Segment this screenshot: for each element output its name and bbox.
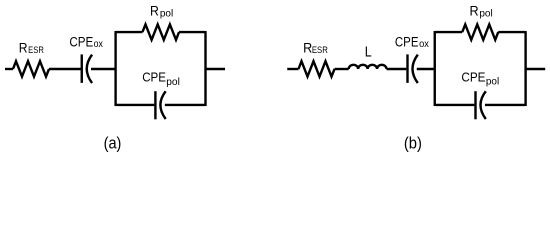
wire: (a) box top-left segment xyxy=(116,31,143,33)
inductor L (b) four humps xyxy=(349,65,387,69)
wire: (b) box bottom-right segment xyxy=(485,104,526,106)
capacitor CPE_pol (a) curved plate xyxy=(160,91,165,119)
svg-text:CPE: CPE xyxy=(142,70,166,84)
svg-text:ESR: ESR xyxy=(28,44,44,55)
svg-text:L: L xyxy=(365,45,372,61)
svg-text:CPE: CPE xyxy=(461,70,485,84)
wire: (a) box bottom-right segment xyxy=(165,104,206,106)
label R_ESR (b) xyxy=(303,41,328,56)
label R_pol (a) xyxy=(150,3,173,19)
svg-text:ox: ox xyxy=(94,39,103,50)
label R_pol (b) xyxy=(469,4,492,20)
svg-text:ox: ox xyxy=(419,39,429,50)
wire: (a) box left vertical xyxy=(114,31,116,106)
label CPE_pol (b) xyxy=(461,70,499,87)
wire: (b) box left vertical xyxy=(434,31,436,106)
wire: (a) CPE_ox to parallel box xyxy=(91,68,115,70)
wire: (a) box right vertical xyxy=(204,31,206,106)
wire: (b) CPE_ox to parallel box xyxy=(417,68,434,70)
wire: circuit (b) left terminal lead xyxy=(287,68,298,70)
capacitor CPE_ox (a) straight plate xyxy=(81,54,83,83)
label R_ESR (a) xyxy=(19,41,44,56)
label CPE_pol (a) xyxy=(142,70,180,88)
label CPE_ox (a) xyxy=(69,34,102,49)
capacitor CPE_ox (a) curved plate xyxy=(87,55,92,83)
wire: (b) box top-right segment xyxy=(498,31,525,33)
wire: (a) box top-right segment xyxy=(179,31,205,33)
wire: circuit (a) left terminal lead xyxy=(5,68,13,70)
wire: (a) box bottom-left segment xyxy=(116,104,155,106)
wire: (b) R_ESR to inductor xyxy=(335,68,349,70)
label CPE_ox (b) xyxy=(395,35,429,50)
svg-text:pol: pol xyxy=(479,9,492,20)
svg-text:R: R xyxy=(150,3,159,18)
svg-text:pol: pol xyxy=(166,77,180,88)
wire: circuit (a) right terminal lead xyxy=(206,68,226,70)
resistor R_ESR (b) zigzag xyxy=(299,61,335,76)
resistor R_pol (a) zigzag xyxy=(142,24,179,39)
wire: (b) box bottom-left segment xyxy=(435,104,475,106)
svg-text:(b): (b) xyxy=(404,135,422,153)
wire: circuit (b) right terminal lead xyxy=(526,68,546,70)
resistor R_pol (b) zigzag xyxy=(462,24,498,39)
wire: (b) inductor to CPE_ox xyxy=(387,68,407,70)
svg-text:(a): (a) xyxy=(104,135,122,153)
resistor R_ESR (a) zigzag xyxy=(13,61,49,76)
capacitor CPE_pol (b) curved plate xyxy=(481,91,486,119)
svg-text:R: R xyxy=(19,41,28,56)
wire: (a) R_ESR to CPE_ox xyxy=(49,68,81,70)
svg-text:ESR: ESR xyxy=(312,44,328,55)
svg-text:pol: pol xyxy=(160,8,173,19)
wire: (b) box top-left segment xyxy=(435,31,463,33)
wire: (b) box right vertical xyxy=(524,31,526,106)
svg-text:R: R xyxy=(469,4,478,19)
svg-text:pol: pol xyxy=(486,77,499,88)
capacitor CPE_ox (b) straight plate xyxy=(406,54,408,83)
capacitor CPE_ox (b) curved plate xyxy=(413,55,418,83)
svg-text:CPE: CPE xyxy=(69,34,93,49)
capacitor CPE_pol (a) straight plate xyxy=(154,91,156,119)
svg-text:CPE: CPE xyxy=(395,35,419,50)
capacitor CPE_pol (b) straight plate xyxy=(474,91,476,119)
